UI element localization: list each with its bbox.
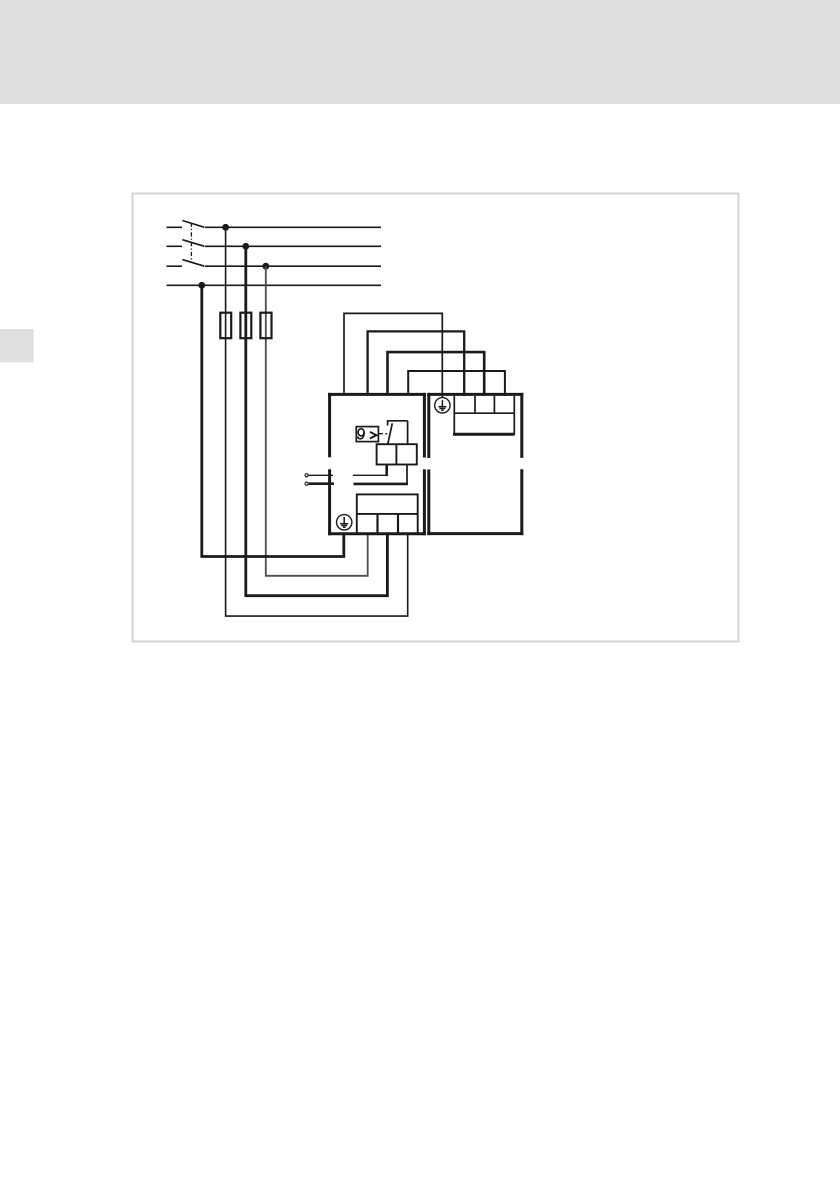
thermal relay label greater-than <box>370 432 377 439</box>
left margin tab <box>0 329 34 362</box>
right box A2 dashed border <box>427 393 523 535</box>
wire N line <box>167 284 382 286</box>
NC contact blade <box>388 423 393 444</box>
wire from left cell down <box>385 465 388 477</box>
wire hook 2 (box A1 top to A2 terminal 1) <box>368 331 465 396</box>
fuse F3 <box>260 313 271 339</box>
header band <box>0 0 840 104</box>
wire L2 phase line <box>167 245 382 247</box>
wire L3 phase line <box>167 265 382 267</box>
thermal relay label theta symbol <box>358 429 364 439</box>
switch Q1 coupling dash-dot line <box>190 223 192 262</box>
wire hook 3 (box A1 top to A2 terminal 2) <box>388 352 485 396</box>
wire hook 1 (box A1 top to A2 ground) <box>344 313 442 397</box>
wire L2 drop through fuse to box bottom terminal <box>246 246 388 595</box>
node junction dot L2 <box>242 243 249 250</box>
ground symbol right box <box>435 398 450 413</box>
wire L1 drop through fuse to box bottom terminal <box>226 227 408 616</box>
wire L3 drop through fuse to box bottom terminal <box>266 266 368 576</box>
NC contact top bar <box>388 421 408 426</box>
switch Q1 blade pole 2 <box>182 240 204 247</box>
motor lead terminal circle 2 <box>305 482 308 485</box>
left box A1 dashed border <box>328 393 426 535</box>
wire from right cell down <box>406 465 408 484</box>
motor lead wire 2 <box>309 482 334 485</box>
wire L1 phase line <box>167 226 382 228</box>
motor lead terminal circle 1 <box>305 474 308 477</box>
switch Q1 blade pole 1 <box>182 221 204 228</box>
figure frame <box>133 194 739 642</box>
ground symbol left box <box>337 515 352 530</box>
wire thick to left edge <box>353 483 408 486</box>
thermal overload relay box <box>356 427 378 442</box>
fuse F1 <box>220 313 231 339</box>
node junction dot N <box>198 282 205 289</box>
wire hook 4 (box A1 top to A2 terminal 3) <box>408 371 505 396</box>
dashed actuating link <box>378 433 387 435</box>
right box terminal strip outline <box>454 396 514 434</box>
wire thin to left edge <box>353 474 388 476</box>
switch Q1 blade pole 3 <box>182 260 204 267</box>
NC contact wire <box>407 421 409 444</box>
node junction dot L3 <box>262 263 269 270</box>
motor lead wire 1 <box>309 474 333 476</box>
terminal block upper (2 cells) <box>377 444 417 464</box>
wire N drop to box ground terminal <box>202 285 344 556</box>
fuse F2 <box>240 313 251 339</box>
right box terminal strip thick bottom <box>453 433 515 436</box>
terminal block lower (3 cells) <box>357 494 418 533</box>
node junction dot L1 <box>222 224 229 231</box>
